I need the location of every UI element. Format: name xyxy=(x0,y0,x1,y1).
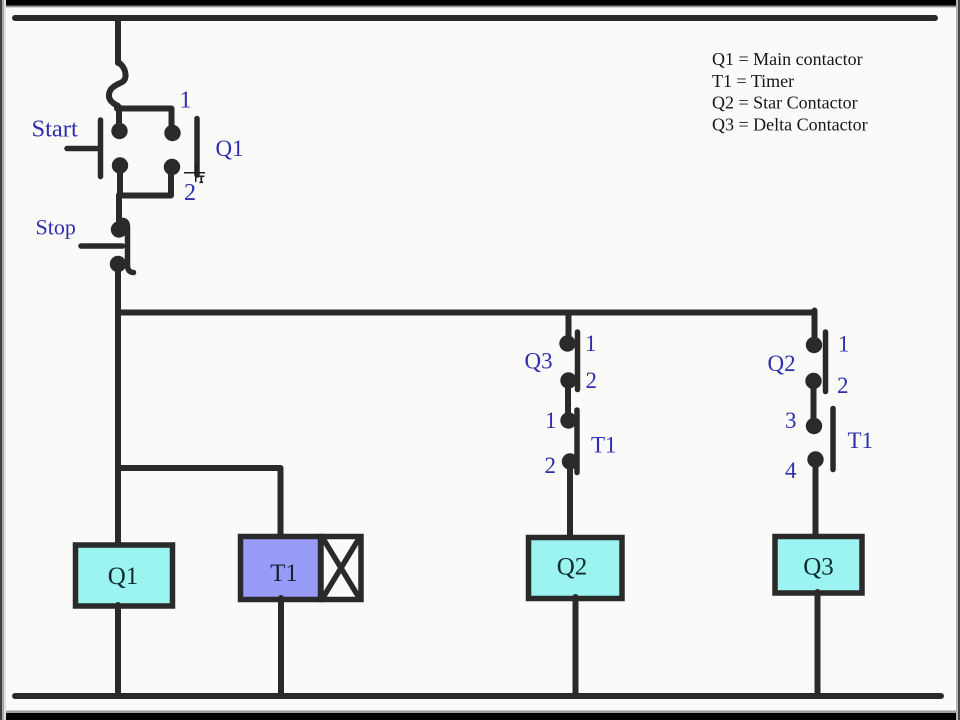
svg-text:3: 3 xyxy=(785,408,797,433)
pin label 1 xyxy=(838,332,850,357)
node: Q2 contact pin 2 xyxy=(805,373,821,389)
svg-text:2: 2 xyxy=(545,453,557,478)
svg-text:Q1 = Main contactor: Q1 = Main contactor xyxy=(712,49,863,69)
svg-text:1: 1 xyxy=(585,331,597,356)
label T1 xyxy=(591,433,617,458)
node: upper terminal of Stop contact xyxy=(111,221,127,237)
coil Q3 xyxy=(775,537,862,594)
node: lower terminal of Start contact xyxy=(112,157,128,173)
pin label 4 xyxy=(785,458,797,483)
svg-text:2: 2 xyxy=(184,180,196,206)
timer mechanism box with X xyxy=(321,537,361,600)
wire: to coil Q2 xyxy=(567,461,573,538)
wire: to Stop contact xyxy=(116,195,122,229)
label Q1 xyxy=(216,136,244,161)
label Start xyxy=(32,116,78,143)
wire: coil Q2 to bottom rail xyxy=(573,597,579,694)
node: lower terminal of Q1 contact (pin 2) xyxy=(164,159,180,175)
node: lower terminal of Stop contact xyxy=(110,256,126,272)
svg-text:Q3 = Delta Contactor: Q3 = Delta Contactor xyxy=(712,114,868,134)
wire: branch to coil T1 xyxy=(118,468,281,536)
pin label 2 xyxy=(545,453,557,478)
svg-text:T1: T1 xyxy=(848,428,874,453)
svg-text:Q2: Q2 xyxy=(768,351,796,376)
wire: bottom neutral rail xyxy=(15,693,941,699)
node: upper terminal of Q1 contact (pin 1) xyxy=(164,125,180,141)
pushbutton Stop (NC) xyxy=(81,220,134,272)
svg-text:Q3: Q3 xyxy=(803,554,834,581)
mouse cursor xyxy=(184,164,205,183)
node: T1 contact pin 2 xyxy=(562,453,578,469)
node: Q3 contact pin 1 xyxy=(559,335,575,351)
wire: coil Q1 to bottom rail xyxy=(115,605,121,694)
svg-text:T1: T1 xyxy=(591,433,617,458)
wire: between Q3 and T1 contacts xyxy=(565,380,571,421)
svg-text:Q1: Q1 xyxy=(216,136,244,161)
coil Q2 xyxy=(529,538,623,599)
label Stop xyxy=(36,215,76,240)
wire: middle branch from distribution rail xyxy=(566,313,572,344)
wire: bottom connector of parallel branch xyxy=(120,172,171,196)
svg-text:2: 2 xyxy=(586,368,598,393)
node: Q2 contact pin 1 xyxy=(806,337,822,353)
svg-text:T1 = Timer: T1 = Timer xyxy=(712,71,794,91)
svg-text:T1: T1 xyxy=(270,560,298,587)
wire: top supply rail L1 xyxy=(15,15,935,21)
pin label 2 xyxy=(837,373,849,398)
svg-text:Q1: Q1 xyxy=(108,563,139,590)
pin label 3 xyxy=(785,408,797,433)
coil Q1 xyxy=(76,545,173,606)
svg-text:Stop: Stop xyxy=(36,215,76,240)
supply break squiggle xyxy=(109,62,126,106)
svg-text:4: 4 xyxy=(785,458,797,483)
wire: drop from supply rail xyxy=(115,18,121,63)
wire: between Q2 and T1 contacts xyxy=(811,381,817,426)
wire: coil T1 to bottom rail xyxy=(278,598,284,694)
contact Q3 (NC) xyxy=(575,332,581,390)
node: T1 contact pin 4 xyxy=(807,451,823,467)
label Q2 xyxy=(768,351,796,376)
wire: distribution rail xyxy=(118,310,815,316)
node: upper terminal of Start contact xyxy=(111,123,127,139)
label Q3 xyxy=(525,349,553,374)
wire: right branch from distribution rail xyxy=(812,311,818,346)
svg-text:2: 2 xyxy=(837,373,849,398)
svg-text:1: 1 xyxy=(180,88,192,114)
pushbutton Start (NO) xyxy=(67,120,101,177)
legend text xyxy=(712,49,868,134)
pin label 1 xyxy=(180,88,192,114)
contact T1 (NO timed) xyxy=(574,410,580,473)
contact Q2 (NC) xyxy=(823,332,829,392)
svg-text:1: 1 xyxy=(838,332,850,357)
svg-text:1: 1 xyxy=(545,408,557,433)
label T1 xyxy=(848,428,874,453)
wire: coil Q3 to bottom rail xyxy=(815,592,821,694)
contact T1 (NO timed, second) xyxy=(830,409,836,470)
node: T1 contact pin 3 xyxy=(806,418,822,434)
pin label 1 xyxy=(545,408,557,433)
contact Q1 auxiliary (NO) xyxy=(194,119,200,176)
coil T1 xyxy=(241,537,321,600)
pin label 1 xyxy=(585,331,597,356)
wire: top connector of Start / Q1 parallel branch xyxy=(117,107,172,125)
svg-text:Q2: Q2 xyxy=(557,554,588,581)
pin label 2 xyxy=(586,368,598,393)
node: Q3 contact pin 2 xyxy=(560,372,576,388)
svg-text:Start: Start xyxy=(32,116,78,143)
pin label 2 xyxy=(184,180,196,206)
svg-text:Q2 = Star Contactor: Q2 = Star Contactor xyxy=(712,93,858,113)
svg-text:Q3: Q3 xyxy=(525,349,553,374)
wire: main vertical to coil Q1 xyxy=(115,264,121,545)
wire: to coil Q3 xyxy=(813,459,819,538)
node: T1 contact pin 1 xyxy=(560,412,576,428)
